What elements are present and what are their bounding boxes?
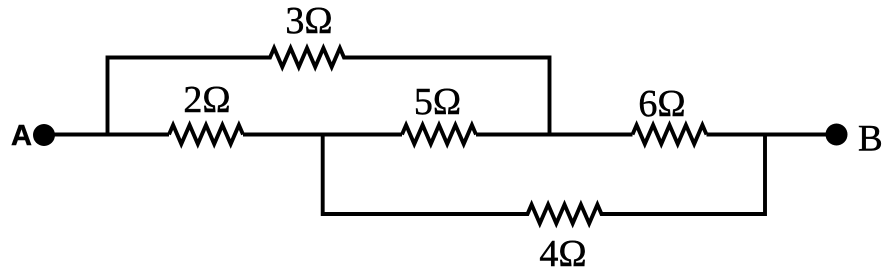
svg-text:A: A [11,120,32,152]
svg-text:5Ω: 5Ω [414,81,461,123]
svg-text:6Ω: 6Ω [638,83,685,125]
svg-text:2Ω: 2Ω [183,79,230,121]
svg-text:B: B [858,119,883,160]
svg-text:4Ω: 4Ω [539,233,586,274]
svg-text:3Ω: 3Ω [285,0,332,42]
